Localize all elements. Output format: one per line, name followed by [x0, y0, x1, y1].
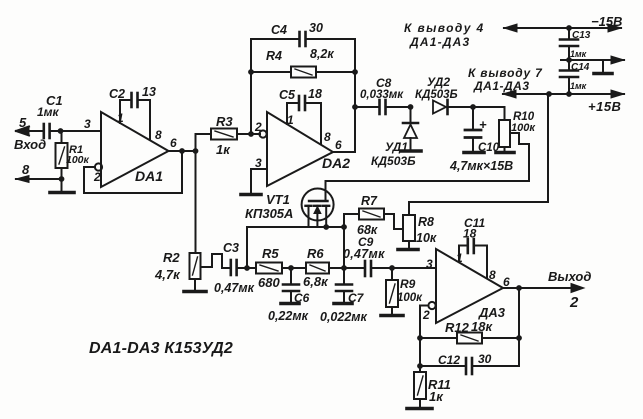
node VD1 junction — [408, 104, 414, 110]
svg-text:R6: R6 — [307, 246, 324, 261]
node C8 tap on rail — [352, 104, 358, 110]
svg-text:R4: R4 — [266, 49, 282, 63]
svg-text:1мк: 1мк — [570, 81, 587, 91]
svg-text:1: 1 — [117, 111, 124, 125]
svg-text:2: 2 — [93, 170, 101, 184]
wire left riser to C3/R5 node — [246, 227, 248, 268]
svg-text:2: 2 — [254, 120, 262, 134]
resistor R10 — [473, 107, 510, 152]
op-amp DA3 — [428, 249, 503, 323]
svg-text:КП305А: КП305А — [245, 206, 293, 221]
svg-text:8: 8 — [324, 130, 331, 144]
svg-text:2: 2 — [569, 294, 579, 311]
svg-text:УД1: УД1 — [385, 140, 408, 154]
op-amp DA1 — [101, 112, 169, 187]
diode VD1 — [403, 107, 418, 150]
ground (VD1) — [401, 149, 421, 153]
svg-text:С2: С2 — [109, 87, 125, 101]
svg-text:100к: 100к — [397, 292, 423, 304]
capacitor C13 — [560, 28, 578, 60]
wire DA3 pin2 rail — [420, 306, 429, 373]
capacitor C3 — [231, 260, 256, 275]
svg-text:68к: 68к — [357, 223, 378, 237]
svg-text:30: 30 — [478, 352, 492, 366]
ground (C10) — [464, 151, 484, 155]
svg-text:8: 8 — [22, 162, 30, 177]
svg-text:0,22мк: 0,22мк — [268, 309, 309, 323]
node R3 / C4-R4 rail — [248, 131, 254, 137]
svg-text:4,7мк×15В: 4,7мк×15В — [449, 159, 513, 173]
ground (input) — [50, 191, 74, 195]
svg-text:0,033мк: 0,033мк — [360, 89, 404, 101]
svg-text:0,022мк: 0,022мк — [320, 310, 368, 324]
svg-text:R9: R9 — [400, 277, 416, 291]
capacitor C7 — [336, 268, 352, 303]
svg-text:6,8к: 6,8к — [303, 274, 329, 289]
svg-text:К выводу 4: К выводу 4 — [404, 21, 485, 35]
svg-text:6: 6 — [335, 138, 342, 152]
resistor R8 — [403, 202, 415, 249]
capacitor C5 (pins 1-8 of DA2) — [287, 96, 321, 144]
node VT1/R7 riser junction — [341, 224, 347, 230]
wire feedback rail x=519 — [518, 288, 520, 366]
svg-text:10к: 10к — [416, 231, 437, 245]
capacitor C6 — [283, 268, 299, 303]
ground (R2) — [184, 290, 206, 294]
capacitor C2 (pins 1-8 of DA1) — [120, 93, 150, 140]
svg-text:3: 3 — [255, 156, 262, 170]
node R12/rail — [516, 335, 522, 341]
power rail +15V — [503, 90, 624, 98]
wire DA1 output down to R2 — [195, 151, 197, 253]
svg-text:+15В: +15В — [588, 99, 621, 114]
node VT1 drain on source wire — [323, 224, 329, 230]
capacitor C4 — [251, 32, 355, 46]
transistor VT1 — [302, 181, 334, 227]
node R5/R6/C6 junction — [288, 265, 294, 271]
terminal 5 (input) — [16, 127, 43, 136]
svg-text:30: 30 — [309, 21, 323, 35]
svg-text:−15В: −15В — [591, 14, 622, 29]
wire riser R7 to signal line — [343, 214, 345, 268]
ground (R8) — [398, 248, 418, 252]
svg-text:100к: 100к — [511, 122, 536, 134]
svg-text:VT1: VT1 — [266, 192, 290, 207]
svg-text:0,47мк: 0,47мк — [343, 247, 385, 261]
svg-text:1мк: 1мк — [570, 49, 587, 59]
capacitor C14 — [560, 60, 578, 94]
svg-text:DA1-DA3 К153УД2: DA1-DA3 К153УД2 — [89, 340, 233, 357]
capacitor C8 — [355, 100, 410, 114]
ground (DA2 pin3) — [241, 193, 261, 197]
capacitor C1 — [44, 124, 50, 138]
ground (R10) — [496, 151, 514, 155]
svg-text:6: 6 — [503, 275, 510, 289]
wire DA2 output — [333, 151, 355, 153]
power rail -15V — [504, 24, 621, 32]
svg-text:1мк: 1мк — [37, 105, 60, 119]
node C1/R1 junction — [58, 128, 64, 134]
diode VD2 — [433, 100, 473, 114]
svg-text:18: 18 — [308, 87, 322, 101]
svg-text:DA2: DA2 — [322, 155, 350, 171]
svg-text:С5: С5 — [279, 88, 296, 102]
resistor R6 — [306, 263, 344, 274]
svg-text:R8: R8 — [418, 215, 434, 229]
op-amp DA2 — [259, 112, 333, 186]
wire R10 wiper to VT1 gate line — [326, 133, 530, 181]
node R6/C7/C9 junction — [341, 265, 347, 271]
svg-text:+: + — [479, 117, 487, 132]
wire R2 wiper jog to C3 — [201, 254, 230, 268]
svg-text:1к: 1к — [216, 142, 231, 157]
wire DA1 output riser to R3 line — [196, 134, 212, 151]
wire rail x=355 (DA2 output to C4/R4/C8) — [354, 39, 356, 152]
ground (C6) — [281, 302, 299, 306]
resistor R7 — [344, 209, 403, 230]
svg-text:8,2к: 8,2к — [310, 47, 334, 61]
ground (R9) — [381, 314, 403, 318]
capacitor C9 — [344, 261, 392, 276]
svg-text:2: 2 — [422, 308, 430, 322]
svg-text:ДА1-ДА3: ДА1-ДА3 — [409, 35, 470, 49]
svg-text:ДА1-ДА3: ДА1-ДА3 — [473, 79, 530, 93]
node C10 junction — [470, 104, 476, 110]
node C3/R5/VT1 junction — [244, 265, 250, 271]
node DA3 output/rail — [516, 285, 522, 291]
svg-text:С14: С14 — [571, 62, 590, 73]
terminal 8 — [16, 176, 62, 183]
svg-text:R3: R3 — [216, 114, 233, 129]
wire DA3 output — [503, 287, 572, 289]
ground (C7) — [334, 302, 352, 306]
terminal Выход arrow — [571, 284, 584, 293]
wire C1 to DA1 pin3 — [50, 130, 101, 132]
node pin2/C12 — [417, 363, 423, 369]
resistor R11 — [414, 372, 426, 408]
resistor R4 — [248, 67, 358, 78]
svg-text:УД2: УД2 — [427, 75, 450, 89]
wire to DA3 pin 3 — [392, 267, 436, 269]
svg-text:К выводу 7: К выводу 7 — [468, 66, 543, 80]
svg-text:КД503Б: КД503Б — [371, 154, 416, 168]
svg-text:С12: С12 — [438, 353, 460, 367]
svg-text:С10: С10 — [478, 142, 500, 154]
resistor R2 — [190, 253, 201, 291]
svg-text:1: 1 — [287, 113, 294, 127]
svg-text:С6: С6 — [294, 291, 310, 305]
svg-text:1к: 1к — [429, 389, 444, 404]
resistor R5 — [256, 263, 306, 274]
svg-text:Вход: Вход — [14, 137, 46, 152]
svg-text:3: 3 — [426, 257, 433, 271]
wire +15V feed to R8 — [409, 94, 548, 202]
svg-text:1: 1 — [456, 251, 463, 265]
svg-text:3: 3 — [84, 117, 91, 131]
resistor R1 — [56, 131, 68, 192]
svg-text:4,7к: 4,7к — [154, 267, 181, 282]
wire DA2 pin3 to ground — [251, 169, 267, 194]
resistor R3 — [211, 129, 260, 140]
resistor R12 — [420, 333, 519, 344]
ground (R11) — [407, 407, 432, 411]
svg-text:Выход: Выход — [548, 269, 591, 284]
node R1/terminal8 junction — [59, 176, 65, 182]
svg-text:КД503Б: КД503Б — [415, 89, 458, 101]
svg-text:С13: С13 — [572, 30, 591, 41]
svg-text:DA1: DA1 — [135, 168, 163, 184]
svg-text:С7: С7 — [348, 291, 365, 305]
svg-text:0,47мк: 0,47мк — [214, 281, 255, 295]
svg-text:ДА3: ДА3 — [478, 305, 506, 320]
svg-text:С8: С8 — [376, 76, 392, 90]
node pin2/R12 — [417, 335, 423, 341]
node R9 junction — [389, 265, 395, 271]
svg-text:8: 8 — [489, 268, 496, 282]
wire rail x=251 (C4/R4 left) — [250, 39, 252, 134]
svg-text:R12: R12 — [445, 320, 470, 335]
node DA1 output — [169, 148, 199, 154]
wire VT1 source line — [247, 226, 344, 228]
svg-text:R5: R5 — [262, 246, 279, 261]
wire DA1 feedback loop to pin 2 — [84, 151, 182, 193]
svg-text:R2: R2 — [163, 250, 180, 265]
svg-text:R7: R7 — [361, 194, 378, 208]
svg-text:18к: 18к — [471, 319, 493, 334]
capacitor C10 (electrolytic) — [465, 107, 481, 152]
svg-text:680: 680 — [258, 275, 280, 290]
svg-text:С4: С4 — [271, 23, 287, 37]
capacitor C12 — [420, 358, 519, 374]
svg-text:13: 13 — [142, 85, 156, 99]
resistor R9 — [386, 268, 398, 315]
power rail common — [561, 56, 624, 64]
svg-text:18: 18 — [463, 227, 477, 241]
svg-text:6: 6 — [170, 136, 177, 150]
svg-text:5: 5 — [19, 115, 27, 130]
capacitor C11 (pins 1-8 of DA3) — [459, 239, 487, 278]
svg-text:8: 8 — [155, 128, 162, 142]
ground (power common) — [594, 60, 612, 74]
svg-text:100к: 100к — [66, 154, 90, 166]
svg-text:С3: С3 — [223, 241, 239, 255]
